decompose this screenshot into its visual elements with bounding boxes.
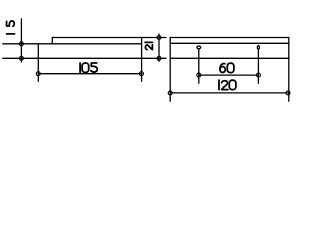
wire: left edge of shelf body, extends down as 105-dim extension — [37, 44, 39, 82]
wire: 60-dim left extension line — [198, 49, 200, 83]
wire: bottom edge of shelf body + left extension for 15 dim + right extension for 21 dim — [3, 57, 166, 59]
wire: 60-dim right extension line — [257, 50, 259, 83]
label: 21 (rotated) — [145, 42, 152, 49]
wire: rect second horizontal line — [170, 42, 289, 44]
node: 105-dim left endpoint circle — [36, 72, 40, 76]
node: 15-dim lower endpoint circle — [19, 56, 23, 60]
wire: rect bottom edge — [170, 57, 289, 59]
node: 60-dim right endpoint circle — [256, 73, 260, 77]
dimension 21: vertical dimension line between views — [158, 34, 160, 61]
node: 60-dim left endpoint circle — [197, 73, 201, 77]
wire: rect right edge, extends down as 120-dim extension — [288, 38, 290, 102]
dimension 120: horizontal dimension line — [170, 92, 289, 94]
node: 105-dim right endpoint circle — [139, 72, 143, 76]
wire: lip step vertical — [51, 38, 53, 44]
wire: top edge of shelf body + left extension line for 15 dim — [3, 43, 142, 45]
wire: lip top edge + right extension for 21 dim — [52, 37, 166, 39]
dimension 15: vertical dimension line — [20, 19, 22, 62]
label: 120 — [219, 80, 236, 89]
label: 15 (rotated) — [7, 21, 15, 34]
node: 120-dim right endpoint circle — [286, 91, 290, 95]
label: 60 — [220, 63, 234, 72]
mounting hole right (vertical oval) — [257, 46, 259, 50]
dimension 60: horizontal dimension line — [199, 74, 259, 76]
wire: rect left edge, extends down as 120-dim extension — [169, 38, 171, 102]
wire: right edge of shelf body, extends down as 105-dim extension — [141, 38, 143, 82]
label: 105 — [80, 63, 97, 72]
node: 15-dim upper endpoint circle — [19, 42, 23, 46]
node: 120-dim left endpoint circle — [168, 91, 172, 95]
node: 21-dim upper endpoint circle — [157, 36, 161, 40]
dimension 105: horizontal dimension line — [38, 73, 141, 75]
node: 21-dim lower endpoint circle — [157, 56, 161, 60]
mounting slot left (horizontal oval) — [197, 46, 201, 49]
wire: rect top edge — [170, 37, 289, 39]
